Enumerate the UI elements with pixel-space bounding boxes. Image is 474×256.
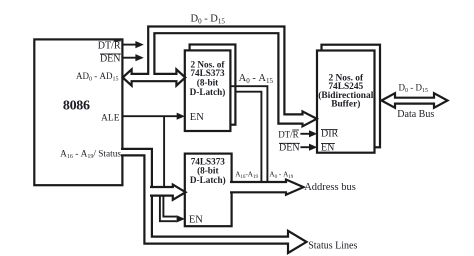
svg-text:DEN: DEN — [100, 53, 121, 64]
svg-text:A0 - A15: A0 - A15 — [239, 73, 274, 85]
svg-text:(8-bit: (8-bit — [197, 166, 219, 176]
svg-text:DT/R: DT/R — [278, 129, 299, 139]
svg-text:74LS373: 74LS373 — [190, 68, 225, 78]
svg-text:D-Latch): D-Latch) — [190, 175, 226, 185]
svg-text:D0 - D15: D0 - D15 — [399, 82, 429, 94]
svg-text:8086: 8086 — [63, 99, 90, 114]
svg-text:EN: EN — [321, 142, 334, 153]
svg-text:Address bus: Address bus — [304, 182, 356, 193]
svg-text:A16-A19: A16-A19 — [235, 171, 258, 181]
svg-text:D0 - D15: D0 - D15 — [190, 13, 225, 25]
svg-text:Data Bus: Data Bus — [397, 109, 434, 120]
svg-text:DEN: DEN — [279, 143, 300, 154]
svg-text:DT/R: DT/R — [98, 41, 121, 52]
svg-text:D-Latch): D-Latch) — [190, 87, 226, 97]
svg-text:DIR: DIR — [321, 129, 339, 140]
svg-text:EN: EN — [190, 112, 204, 123]
svg-text:ALE: ALE — [101, 113, 120, 123]
svg-text:Status Lines: Status Lines — [308, 241, 357, 252]
svg-text:Buffer): Buffer) — [331, 98, 360, 109]
svg-text:A0 - A19: A0 - A19 — [269, 170, 293, 180]
svg-text:(8-bit: (8-bit — [197, 78, 219, 88]
svg-text:EN: EN — [189, 214, 203, 225]
